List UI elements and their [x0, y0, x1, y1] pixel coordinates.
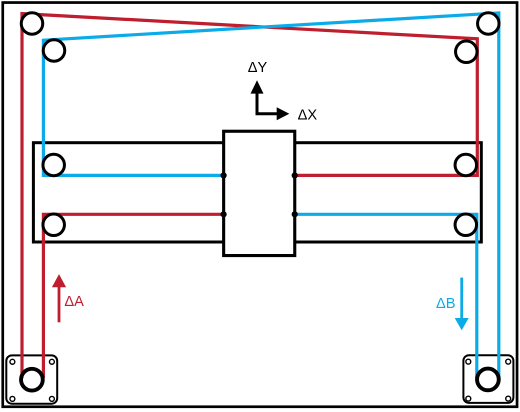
- arrow dA: [52, 274, 66, 322]
- svg-text:ΔX: ΔX: [298, 107, 318, 123]
- belt A run: carriage left to gantry pulley, down to motor A: [43, 214, 223, 378]
- arrow dB: [455, 278, 469, 331]
- axis arrow X: [256, 107, 290, 120]
- idler pulley top-left A: [21, 13, 43, 35]
- motor B pulley: [477, 369, 499, 391]
- gantry pulley upper-left: [43, 154, 64, 176]
- carriage: [224, 131, 295, 255]
- belt anchor node carriage left lower: [221, 211, 227, 217]
- svg-text:ΔY: ΔY: [248, 60, 268, 76]
- motor B screw bottom-right: [506, 396, 511, 401]
- idler pulley top-right A: [456, 41, 478, 63]
- motor A screw top-left: [10, 359, 15, 364]
- svg-text:ΔA: ΔA: [64, 294, 84, 310]
- motor A screw bottom-right: [49, 396, 54, 401]
- belt B run: carriage right lower to gantry pulley, down to motor B: [295, 214, 477, 378]
- gantry pulley upper-right: [455, 154, 477, 176]
- gantry pulley lower-right: [455, 214, 477, 236]
- gantry rail: [33, 143, 481, 242]
- motor B screw bottom-left: [466, 396, 471, 401]
- idler pulley top-right B: [478, 13, 500, 35]
- motor A screw bottom-left: [10, 396, 15, 401]
- motor B body (bottom-right): [463, 355, 513, 403]
- idler pulley top-left B: [43, 40, 65, 62]
- belt anchor node carriage right upper: [292, 172, 298, 178]
- motor A screw top-right: [49, 359, 54, 364]
- axis arrow Y: [251, 80, 264, 114]
- motor A pulley: [21, 369, 43, 391]
- motor A body (bottom-left): [6, 355, 57, 403]
- belt anchor node carriage left upper: [221, 172, 227, 178]
- belt B run: carriage left upper to gantry pulley, up left, across top, down to motor B: [43, 13, 498, 378]
- gantry pulley lower-left: [43, 214, 64, 236]
- svg-text:ΔB: ΔB: [436, 296, 455, 312]
- motor B screw top-left: [466, 359, 471, 364]
- belt anchor node carriage right lower: [292, 211, 298, 217]
- belt A run: motor A to top-left idler, across top, down right, to carriage: [22, 14, 477, 378]
- motor B screw top-right: [506, 359, 511, 364]
